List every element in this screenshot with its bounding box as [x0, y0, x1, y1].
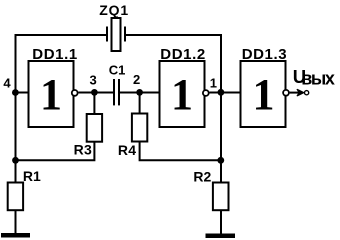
node R1 junction [12, 157, 19, 164]
node R2 junction [217, 157, 224, 164]
node Uvyh label [293, 66, 335, 89]
svg-text:4: 4 [3, 76, 11, 91]
svg-text:R3: R3 [74, 142, 93, 158]
pin 2 label [133, 72, 140, 87]
svg-text:вых: вых [301, 69, 335, 89]
svg-text:DD1.1: DD1.1 [32, 46, 78, 63]
svg-text:2: 2 [133, 72, 140, 87]
wire R2 to ground [220, 211, 222, 234]
wire DD1.3 output lead [290, 92, 300, 94]
op-amp U1: inverter DD1.1 [29, 46, 78, 127]
output terminal circle [305, 91, 309, 95]
svg-text:1: 1 [40, 70, 62, 119]
wire R4 top lead [139, 93, 141, 114]
pin 3 label [90, 73, 97, 88]
inverter bubble DD1.3 [283, 90, 289, 96]
ground right [206, 234, 236, 239]
wire top-left loop from crystal to pin 4 rail down to R1 [16, 35, 107, 182]
resistor R1 [8, 168, 41, 210]
wire R3 bottom lead to left rail [16, 142, 95, 160]
wire top-right from crystal down to node 1 rail and R2 [125, 35, 222, 182]
node pin4 junction [12, 89, 19, 96]
crystal ZQ1 [99, 2, 129, 51]
capacitor C1 [109, 63, 126, 106]
wire DD1.1 output to C1 [78, 92, 113, 94]
op-amp U2: inverter DD1.2 [160, 46, 206, 127]
wire C1 to DD1.2 input [120, 92, 160, 94]
svg-text:DD1.3: DD1.3 [242, 46, 288, 63]
svg-text:R4: R4 [118, 142, 136, 158]
svg-text:DD1.2: DD1.2 [160, 46, 206, 63]
resistor R2 [193, 168, 228, 210]
resistor R3 [74, 114, 103, 158]
svg-text:3: 3 [90, 73, 97, 88]
output arrow [296, 89, 304, 96]
wire R4 bottom lead to right rail [140, 142, 221, 160]
wire R1 to ground [15, 211, 17, 234]
op-amp U3: inverter DD1.3 [241, 46, 288, 127]
node pin2 junction [136, 89, 143, 96]
inverter bubble DD1.2 [203, 90, 209, 96]
ground left [1, 233, 30, 238]
pin 4 label [3, 76, 11, 91]
resistor R4 [118, 114, 147, 159]
svg-text:1: 1 [171, 70, 193, 119]
wire input to DD1.1 [16, 92, 29, 94]
svg-text:1: 1 [253, 70, 275, 119]
wire DD1.2 output to DD1.3 input [209, 92, 240, 94]
pin 1 label [210, 76, 217, 91]
wire R3 top lead [93, 93, 95, 115]
svg-text:1: 1 [210, 76, 217, 91]
node pin3 junction [91, 89, 98, 96]
svg-text:C1: C1 [109, 63, 126, 78]
svg-text:ZQ1: ZQ1 [99, 2, 129, 18]
svg-text:R1: R1 [23, 168, 41, 184]
node 1 junction [218, 89, 225, 96]
svg-text:R2: R2 [193, 168, 211, 184]
inverter bubble DD1.1 [72, 90, 78, 96]
